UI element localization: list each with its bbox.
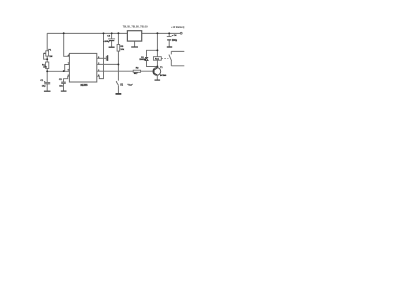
svg-text:+ C4: + C4 bbox=[172, 34, 177, 37]
svg-text:"Tast": "Tast" bbox=[127, 84, 133, 87]
svg-text:NE555: NE555 bbox=[81, 85, 89, 87]
svg-text:5: 5 bbox=[98, 57, 99, 59]
svg-text:C3: C3 bbox=[107, 35, 111, 37]
svg-text:S1: S1 bbox=[120, 85, 124, 87]
svg-text:+12 Batterij: +12 Batterij bbox=[171, 25, 185, 29]
svg-text:7: 7 bbox=[68, 63, 69, 65]
svg-text:2: 2 bbox=[98, 63, 99, 65]
svg-text:6: 6 bbox=[68, 70, 69, 72]
svg-text:8: 8 bbox=[98, 75, 99, 77]
svg-text:1M: 1M bbox=[49, 56, 52, 58]
svg-text:+100µ: +100µ bbox=[103, 41, 110, 43]
svg-text:T1: T1 bbox=[160, 67, 163, 69]
svg-text:+: + bbox=[44, 81, 45, 83]
svg-text:78L05, 78L08, 78L09: 78L05, 78L08, 78L09 bbox=[123, 25, 149, 29]
svg-text:100µ: 100µ bbox=[172, 40, 178, 42]
svg-text:C2: C2 bbox=[59, 79, 63, 81]
svg-text:P1: P1 bbox=[48, 49, 51, 51]
svg-text:4: 4 bbox=[68, 54, 69, 57]
svg-text:1N4148: 1N4148 bbox=[139, 58, 146, 61]
svg-text:BC546: BC546 bbox=[160, 74, 167, 77]
svg-text:R2: R2 bbox=[136, 68, 140, 70]
svg-text:10n: 10n bbox=[59, 85, 63, 87]
svg-text:R3: R3 bbox=[120, 46, 124, 48]
svg-text:1: 1 bbox=[68, 75, 69, 77]
svg-text:3: 3 bbox=[98, 70, 99, 72]
svg-text:10k: 10k bbox=[120, 49, 124, 51]
svg-text:10µ: 10µ bbox=[42, 85, 46, 87]
